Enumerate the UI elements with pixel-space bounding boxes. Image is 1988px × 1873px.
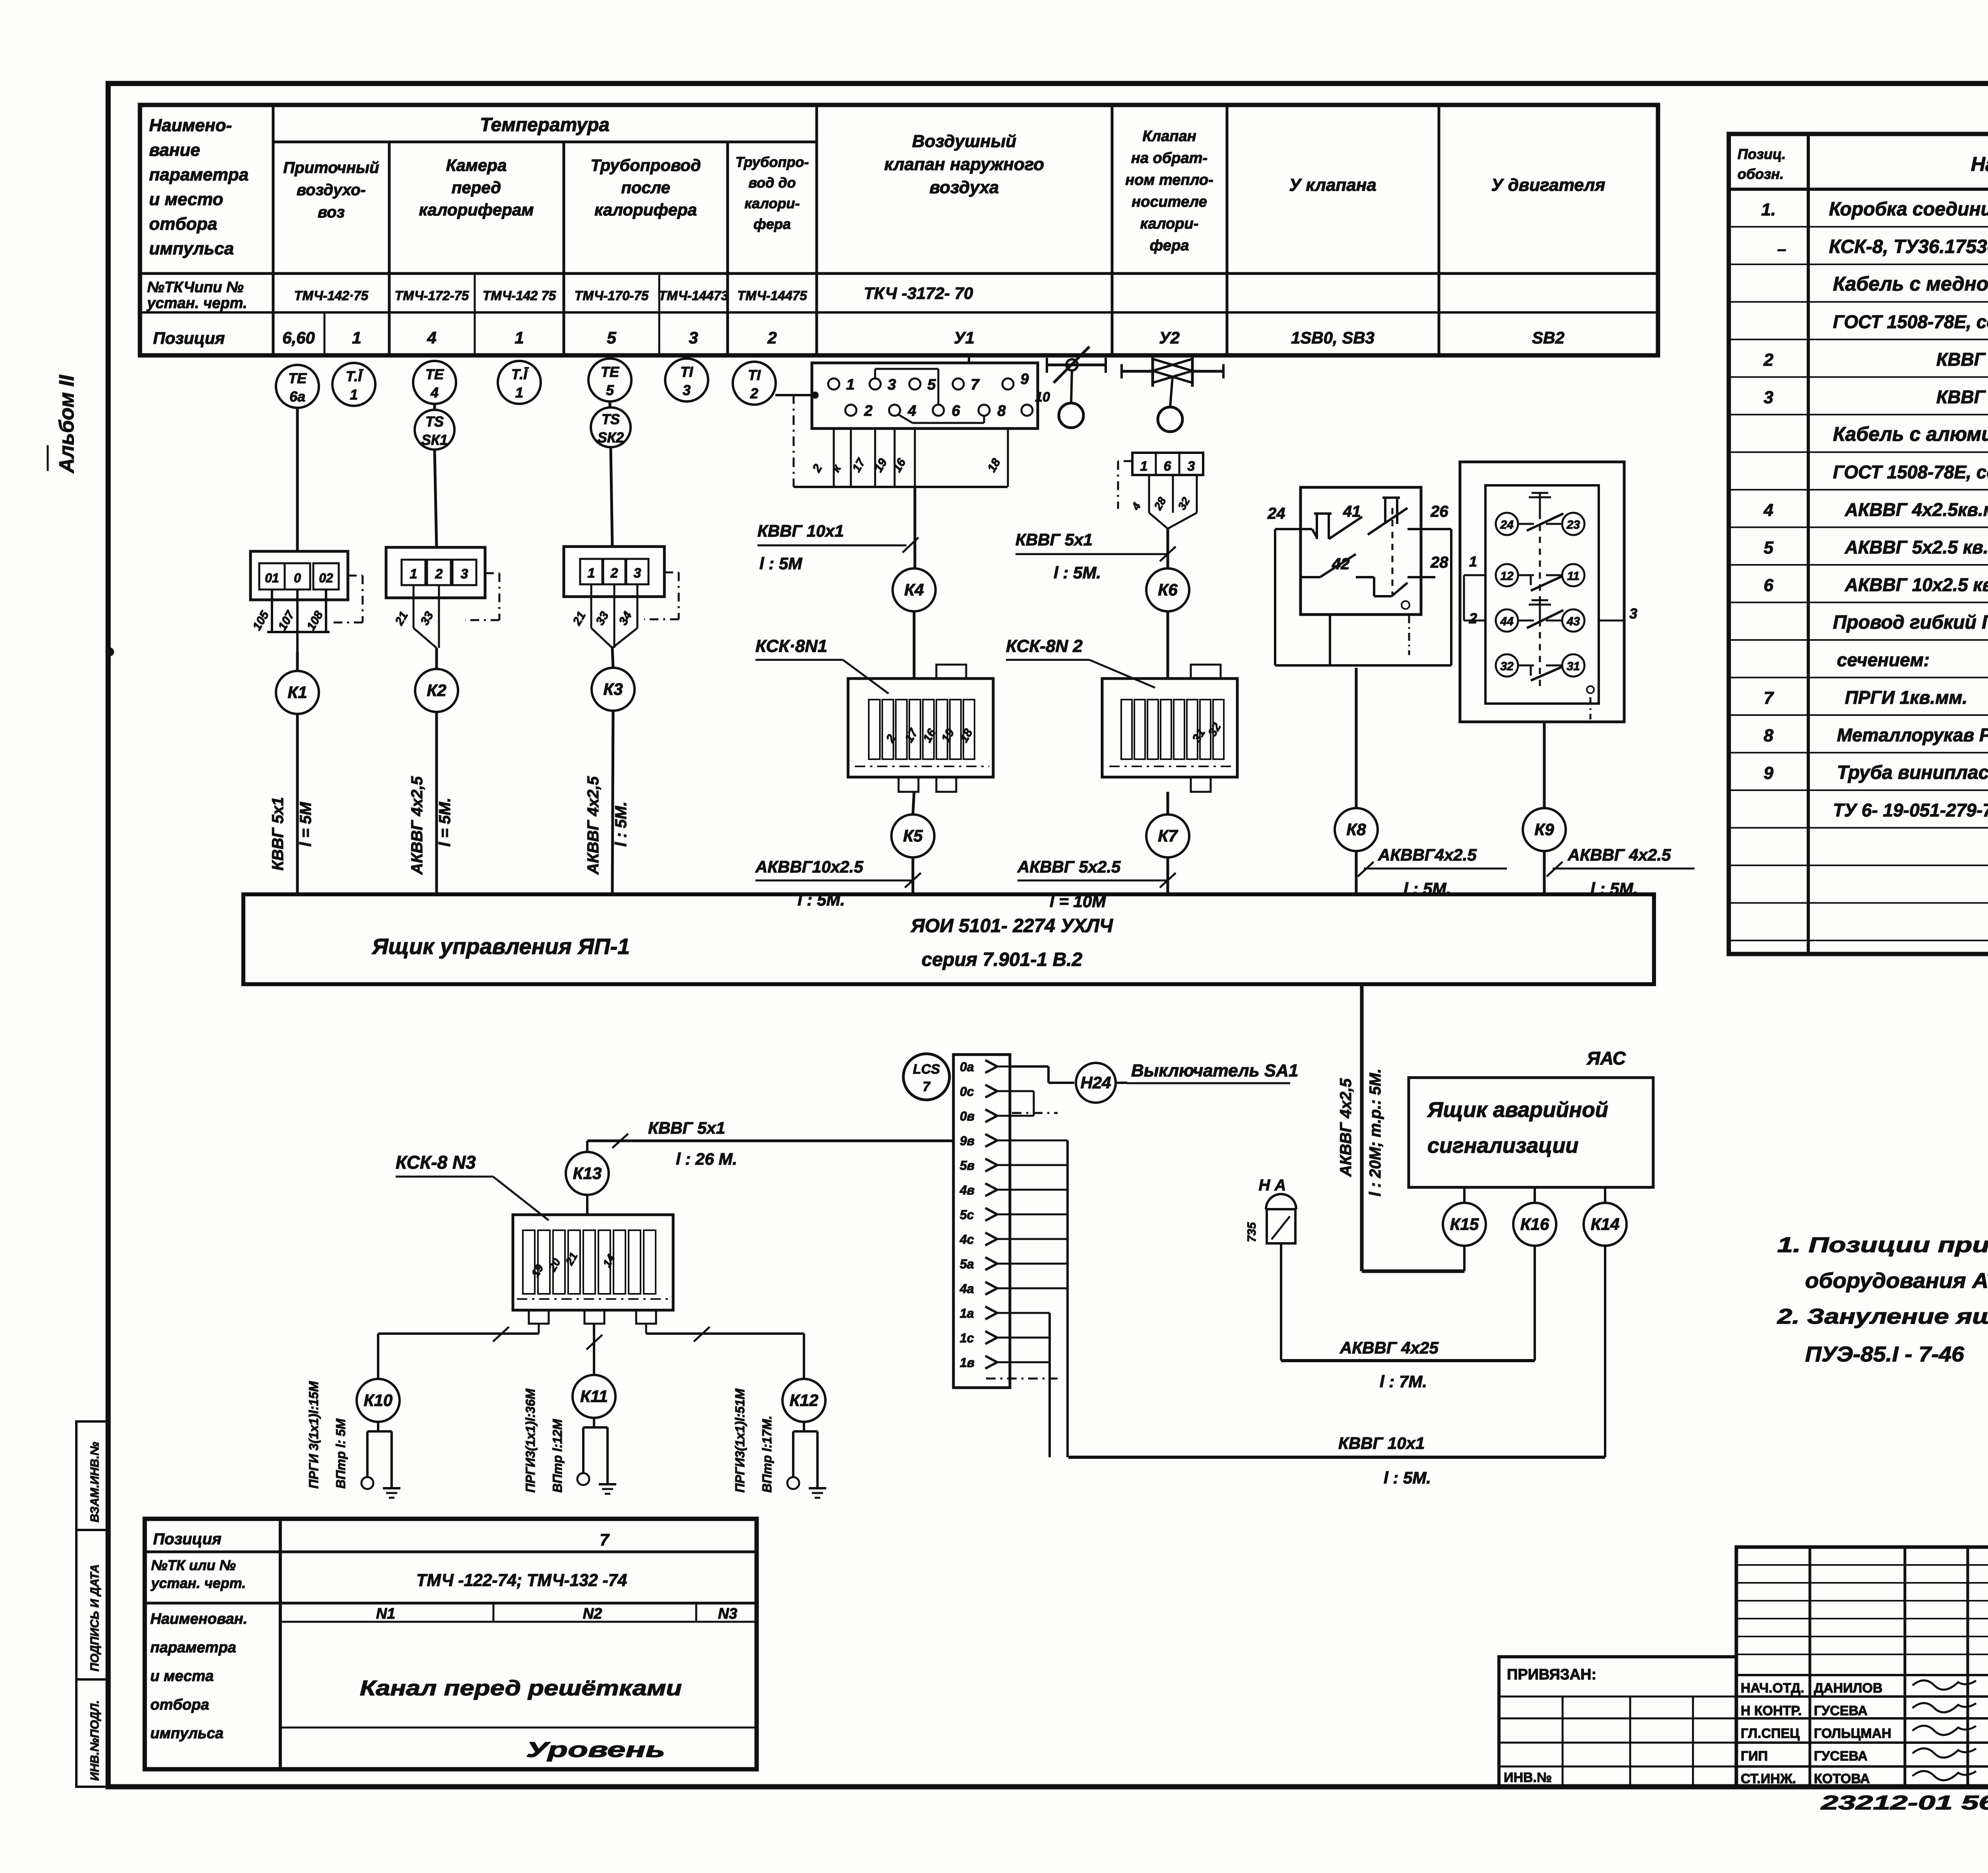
air valve connector plate: [812, 363, 1038, 429]
limit switch box outer: [1301, 487, 1421, 615]
label underline: [755, 659, 843, 661]
electrode tip circle: [787, 1477, 799, 1489]
svg-text:2: 2: [864, 403, 872, 419]
label underline: [1127, 1082, 1290, 1084]
strip stub to bus2: [1010, 1312, 1050, 1314]
svg-text:Альбом II: Альбом II: [55, 374, 78, 474]
svg-text:воздухо-: воздухо-: [297, 181, 366, 199]
strip dash-dot: [1012, 1112, 1058, 1114]
stub from table to plate: [968, 355, 970, 363]
svg-text:12: 12: [1500, 570, 1514, 583]
svg-text:К7: К7: [1158, 826, 1178, 845]
table A outer border: [140, 105, 1658, 355]
box2 stub 21: [413, 585, 415, 628]
svg-text:ТМЧ-170-75: ТМЧ-170-75: [575, 288, 649, 303]
svg-text:2: 2: [610, 566, 618, 581]
svg-text:5а: 5а: [960, 1257, 974, 1271]
title block outer: [1736, 1547, 1988, 1787]
svg-text:К3: К3: [603, 680, 623, 698]
svg-text:параметра: параметра: [150, 1639, 236, 1656]
svg-text:Кабель с медной жилой,: Кабель с медной жилой,: [1833, 273, 1988, 295]
svg-text:Провод гибкий ГОСТ 20520-80,: Провод гибкий ГОСТ 20520-80,: [1833, 612, 1988, 633]
external wire 26: [1421, 528, 1451, 530]
svg-text:11: 11: [1567, 570, 1579, 583]
stub K16: [1534, 1187, 1536, 1203]
svg-text:К16: К16: [1520, 1215, 1549, 1233]
KCK-8N1 top tab: [936, 665, 966, 679]
box3 stub 33: [613, 584, 615, 648]
external wire left down: [1274, 529, 1276, 665]
svg-text:сечением:: сечением:: [1837, 650, 1930, 670]
box bottom exit: [1329, 615, 1331, 665]
valve2 actuator circle: [1158, 407, 1182, 432]
svg-text:9: 9: [1020, 371, 1029, 388]
svg-text:l : 26 М.: l : 26 М.: [676, 1150, 737, 1168]
svg-text:отбора: отбора: [150, 1697, 209, 1713]
svg-text:43: 43: [1566, 615, 1580, 628]
table A row2 bottom line: [140, 311, 1658, 314]
stub 32: [1196, 475, 1198, 513]
wire to K1: [296, 652, 299, 672]
wire K3 to control box: [612, 710, 613, 894]
wire to K8: [1355, 668, 1358, 808]
junction box 3: [564, 547, 664, 597]
stub 4: [1148, 475, 1150, 513]
svg-text:ПОДПИСЬ И ДАТА: ПОДПИСЬ И ДАТА: [88, 1564, 101, 1671]
valve2 line left: [1122, 370, 1153, 373]
cable marker К15: [1443, 1203, 1486, 1246]
table C row2 bottom: [145, 1602, 757, 1605]
box3 cell 1: [580, 559, 602, 584]
svg-text:К10: К10: [364, 1391, 393, 1410]
wire TS SK1 down: [435, 450, 437, 547]
wire TS SK2 down: [611, 447, 612, 547]
svg-text:К9: К9: [1534, 820, 1554, 839]
svg-text:8: 8: [1764, 726, 1774, 745]
svg-text:4с: 4с: [959, 1232, 974, 1247]
svg-text:Ящик аварийной: Ящик аварийной: [1427, 1098, 1608, 1122]
svg-text:l = 5М.: l = 5М.: [436, 798, 454, 847]
svg-text:Уровень: Уровень: [526, 1738, 665, 1762]
level electrode with ground K11: [593, 1418, 595, 1427]
svg-text:воздуха: воздуха: [930, 178, 999, 197]
svg-text:ЯАС: ЯАС: [1586, 1048, 1626, 1068]
ground bar2: [386, 1492, 397, 1494]
svg-text:У2: У2: [1159, 328, 1180, 347]
bus2 down: [1048, 1313, 1051, 1457]
svg-text:1: 1: [514, 328, 524, 347]
svg-text:Позиция: Позиция: [153, 329, 225, 347]
svg-text:l : 20М; т.р.: 5М.: l : 20М; т.р.: 5М.: [1367, 1068, 1384, 1196]
svg-text:К4: К4: [904, 580, 924, 599]
contact blade 41b: [1368, 508, 1408, 535]
plate wire down: [914, 429, 916, 487]
pin circle: [1402, 601, 1409, 609]
cable marker К12: [782, 1379, 825, 1422]
contact blade 42: [1320, 554, 1356, 577]
svg-text:ТЕ: ТЕ: [425, 366, 444, 382]
svg-text:ПРИВЯЗАН:: ПРИВЯЗАН:: [1507, 1666, 1596, 1683]
box1 stub 105: [271, 589, 273, 632]
sensor TE 6a: [276, 365, 319, 408]
wire to K2: [435, 648, 438, 670]
pin circle 12: [1496, 564, 1518, 586]
svg-text:Наименован.: Наименован.: [150, 1611, 247, 1627]
svg-text:ГОСТ 1508-78Е, сечением:: ГОСТ 1508-78Е, сечением:: [1833, 312, 1988, 332]
svg-text:3: 3: [887, 376, 896, 393]
box2 screen dash-dot: [485, 572, 499, 574]
wire to K6: [1167, 529, 1169, 568]
contact row 41: [1301, 528, 1312, 530]
strip stub to bus1: [1010, 1287, 1068, 1289]
strip stub to bus1: [1010, 1140, 1068, 1142]
svg-text:Н А: Н А: [1259, 1177, 1286, 1194]
svg-text:4: 4: [430, 384, 439, 401]
pin circle 11: [1562, 564, 1584, 586]
wire K9 to control box: [1543, 851, 1546, 894]
pin circle 24: [1496, 513, 1518, 535]
svg-text:0: 0: [294, 571, 301, 585]
control box ЯП-1 outer: [243, 894, 1654, 984]
svg-text:1. Позиции приборов соответств: 1. Позиции приборов соответствуют специф…: [1777, 1233, 1988, 1257]
svg-text:Приточный: Приточный: [283, 159, 379, 176]
ground bar1: [809, 1487, 826, 1489]
svg-text:К15: К15: [1450, 1215, 1479, 1233]
mech link dashed: [1539, 501, 1541, 692]
box1 stub 107: [296, 589, 299, 652]
box2 cell 1: [402, 560, 425, 585]
svg-text:l : 5М.: l : 5М.: [1054, 563, 1101, 582]
svg-text:Т.Ī: Т.Ī: [346, 368, 364, 384]
svg-text:Наимено-: Наимено-: [149, 116, 232, 135]
cable КВВГ5х1 l26 run: [587, 1140, 953, 1142]
cable marker К9: [1523, 808, 1566, 851]
level electrode with ground K12: [803, 1422, 805, 1431]
table C sub row line: [280, 1621, 757, 1623]
svg-text:1: 1: [588, 566, 595, 581]
svg-text:Т.Ī: Т.Ī: [511, 366, 529, 382]
indicator TI 1b: [498, 361, 541, 404]
electrode tip circle: [577, 1473, 589, 1485]
table A column line x=2054: [815, 105, 818, 355]
indicator TI 2: [733, 362, 776, 405]
svg-text:ГЛ.СПЕЦ: ГЛ.СПЕЦ: [1741, 1726, 1800, 1741]
cable marker К2: [415, 669, 458, 712]
svg-text:1с: 1с: [960, 1331, 974, 1345]
svg-text:Н24: Н24: [1080, 1073, 1111, 1092]
table B col Позиц right: [1807, 134, 1810, 954]
svg-text:ГОЛЬЦМАН: ГОЛЬЦМАН: [1814, 1726, 1891, 1741]
wire to K7: [1167, 792, 1169, 814]
svg-text:26: 26: [1430, 503, 1448, 520]
svg-text:Позиция: Позиция: [153, 1530, 221, 1548]
cable marker Н24: [1076, 1063, 1116, 1103]
svg-text:2: 2: [435, 566, 443, 582]
svg-text:5: 5: [606, 382, 614, 398]
svg-text:К14: К14: [1591, 1215, 1620, 1233]
title block vline 4949: [1967, 1547, 1969, 1787]
svg-text:31: 31: [1567, 660, 1580, 673]
screen dash-dot: [1118, 460, 1132, 462]
svg-text:носителе: носителе: [1132, 194, 1207, 210]
svg-text:Трубопровод: Трубопровод: [590, 156, 701, 175]
svg-text:l : 5М.: l : 5М.: [1384, 1468, 1431, 1487]
svg-text:НАЧ.ОТД.: НАЧ.ОТД.: [1741, 1681, 1804, 1696]
screen dash-dot: [1590, 697, 1592, 719]
ground bar2: [602, 1488, 613, 1490]
table C outer border: [145, 1519, 757, 1769]
svg-text:КВВГ 5х1: КВВГ 5х1: [648, 1119, 725, 1137]
run to K12: [646, 1332, 804, 1335]
valve terminal row: [1132, 453, 1203, 475]
svg-text:У двигателя: У двигателя: [1491, 175, 1606, 195]
svg-text:АКВВГ 4х2.5: АКВВГ 4х2.5: [1567, 845, 1671, 864]
svg-text:и место: и место: [149, 190, 223, 209]
plate wire down: [894, 429, 896, 487]
svg-text:калорифера: калорифера: [594, 200, 697, 219]
svg-text:Кабель с алюминиевой жилой,: Кабель с алюминиевой жилой,: [1833, 423, 1988, 445]
table A Температура underline: [273, 141, 817, 143]
svg-text:ГИП: ГИП: [1741, 1749, 1768, 1764]
svg-text:3: 3: [461, 566, 468, 582]
svg-text:ВПтр l:17М.: ВПтр l:17М.: [760, 1415, 774, 1493]
svg-text:вод до: вод до: [748, 175, 796, 191]
label leader: [843, 660, 889, 694]
svg-text:N2: N2: [583, 1605, 602, 1622]
svg-text:1: 1: [410, 566, 417, 582]
wire to K9: [1543, 722, 1546, 808]
svg-text:ТI: ТI: [748, 367, 761, 383]
terminal strip outer: [953, 1055, 1010, 1388]
svg-text:СТ.ИНЖ.: СТ.ИНЖ.: [1741, 1771, 1796, 1786]
KCK-8N2 bottom tab: [1191, 777, 1211, 792]
box3 stub 34: [637, 584, 639, 628]
stub K15: [1463, 1187, 1466, 1203]
svg-text:23212-01 56: 23212-01 56: [1820, 1792, 1988, 1814]
plate pin 9: [1002, 378, 1013, 390]
left stamp strip: [76, 1421, 108, 1787]
svg-text:и места: и места: [150, 1668, 214, 1685]
svg-text:SК2: SК2: [598, 429, 624, 446]
plate pin bottom row: [1021, 405, 1033, 416]
svg-text:2. Зануление ящиков, аппарато: 2. Зануление ящиков, аппаратов выполнить…: [1777, 1305, 1988, 1328]
slash: [586, 1335, 602, 1349]
attach box outer: [1499, 1657, 1736, 1787]
run to K15: [1362, 1270, 1464, 1273]
svg-text:4в: 4в: [959, 1183, 975, 1197]
KCK-8N2 outer: [1102, 679, 1237, 777]
KCK-8N3 dash-dot: [517, 1298, 670, 1300]
svg-text:0с: 0с: [960, 1084, 974, 1099]
valve1 stem circle: [1066, 359, 1077, 370]
sensor TE 4: [413, 361, 456, 404]
box3 cell 3: [626, 559, 648, 584]
svg-text:ном тепло-: ном тепло-: [1125, 172, 1213, 188]
strip stub to bus1: [1010, 1164, 1068, 1166]
svg-text:КВВГ 5х1: КВВГ 5х1: [269, 797, 287, 871]
plate wire down right: [1007, 429, 1009, 487]
svg-text:1: 1: [515, 384, 523, 401]
table A column line x=3619: [1438, 105, 1441, 355]
signature squiggles: [1912, 1681, 1976, 1690]
svg-text:4: 4: [1763, 500, 1773, 520]
svg-text:3: 3: [1629, 605, 1637, 622]
svg-text:ТМЧ-14475: ТМЧ-14475: [737, 288, 807, 303]
box1 stub bus: [267, 631, 330, 633]
svg-text:4а: 4а: [959, 1282, 974, 1296]
svg-text:сигнализации: сигнализации: [1427, 1134, 1578, 1158]
svg-text:0а: 0а: [960, 1060, 974, 1074]
title block vline 4552: [1809, 1547, 1811, 1787]
svg-text:ТМЧ-142 75: ТМЧ-142 75: [483, 288, 556, 303]
table A header bottom line: [140, 272, 1658, 275]
KCK-8N1 dash-dot: [855, 766, 989, 767]
ground bar3: [815, 1497, 820, 1499]
wire K4 to KCK-8N1: [913, 611, 916, 679]
KCK-8N1 outer: [848, 679, 993, 777]
svg-text:Воздушный: Воздушный: [912, 132, 1016, 151]
svg-text:на обрат-: на обрат-: [1131, 150, 1208, 167]
svg-text:КСК-8 N3: КСК-8 N3: [396, 1152, 476, 1173]
KCK-8N3 bottom tab2: [584, 1310, 604, 1324]
svg-text:735: 735: [1245, 1222, 1258, 1242]
cable АКВВГ4х25 run: [1281, 1359, 1535, 1362]
run to K10: [378, 1332, 539, 1335]
KCK-8N1 bottom tab2: [936, 777, 956, 792]
svg-text:ПУЭ-85.I - 7-46: ПУЭ-85.I - 7-46: [1805, 1342, 1965, 1366]
svg-text:4: 4: [907, 403, 916, 419]
stub 28: [1172, 475, 1174, 513]
cable marker К8: [1335, 808, 1378, 851]
svg-text:N1: N1: [376, 1605, 396, 1622]
svg-text:1SВ0, SВ3: 1SВ0, SВ3: [1291, 328, 1375, 347]
wire row 0a: [1010, 1065, 1048, 1068]
valve1 down wire: [1071, 370, 1072, 403]
plate wire down: [874, 429, 876, 487]
svg-text:серия 7.901-1 В.2: серия 7.901-1 В.2: [922, 949, 1083, 970]
svg-text:6,60: 6,60: [282, 328, 315, 347]
screen dash-dot: [1408, 615, 1410, 655]
junction box 2: [386, 547, 485, 598]
box2 stub 33: [438, 585, 440, 648]
valve2 line right: [1192, 370, 1223, 373]
lamp filament mark: [1272, 1216, 1290, 1239]
ground bar3: [389, 1497, 394, 1499]
cable КВВГ10х1 run: [1068, 1456, 1605, 1459]
KCK-8N1 bottom tab1: [899, 777, 918, 792]
svg-text:Ящик управления ЯП-1: Ящик управления ЯП-1: [371, 934, 630, 959]
svg-text:Трубопро-: Трубопро-: [736, 154, 809, 170]
cable marker К14: [1584, 1203, 1627, 1246]
svg-text:клапан наружного: клапан наружного: [884, 155, 1044, 174]
contact row 42: [1301, 576, 1320, 578]
indicator TI 1: [332, 363, 375, 406]
svg-text:К11: К11: [580, 1387, 608, 1406]
slash: [493, 1327, 509, 1342]
table C канал row bottom: [280, 1727, 757, 1729]
svg-text:параметра: параметра: [149, 165, 248, 184]
svg-text:7: 7: [600, 1530, 610, 1549]
svg-text:2: 2: [767, 328, 777, 347]
svg-text:отбора: отбора: [149, 214, 217, 234]
svg-text:ИНВ.№: ИНВ.№: [1504, 1770, 1552, 1785]
svg-text:N3: N3: [718, 1605, 738, 1622]
contact blade row 32-31: [1530, 665, 1532, 676]
label leader: [1089, 660, 1155, 688]
exit right: [645, 1324, 647, 1334]
svg-text:К2: К2: [427, 681, 446, 700]
wire bus to K4: [914, 487, 916, 568]
label underline: [757, 545, 907, 547]
instrument LCS 7: [903, 1054, 949, 1100]
svg-text:К8: К8: [1346, 820, 1366, 839]
svg-text:7: 7: [1764, 688, 1774, 708]
slash: [694, 1327, 710, 1342]
svg-text:КСК-8N 2: КСК-8N 2: [1006, 636, 1083, 656]
svg-text:–: –: [1777, 240, 1786, 258]
box1 cell 0: [285, 563, 310, 589]
KCK-8N3 bottom tab3: [636, 1310, 656, 1324]
wire to H24: [1048, 1082, 1074, 1084]
svg-text:ТМЧ -122-74; ТМЧ-132 -74: ТМЧ -122-74; ТМЧ-132 -74: [416, 1571, 627, 1590]
svg-text:1: 1: [1140, 459, 1148, 474]
KCK-8N3 outer: [513, 1215, 673, 1310]
box3 cell 2: [603, 559, 625, 584]
pin circle bottom: [1587, 686, 1594, 693]
svg-text:LСS: LСS: [913, 1062, 940, 1077]
cable marker К16: [1513, 1203, 1556, 1246]
bottom bus: [1275, 664, 1451, 667]
box3 stub 21: [590, 584, 592, 628]
table B outer border: [1729, 134, 1988, 954]
svg-text:24: 24: [1500, 518, 1514, 531]
svg-text:6: 6: [951, 403, 960, 419]
pin circle 31: [1562, 654, 1584, 677]
svg-text:Клапан: Клапан: [1142, 128, 1196, 145]
label slash: [903, 537, 918, 553]
ground bar1: [383, 1487, 400, 1489]
svg-text:фера: фера: [753, 216, 791, 232]
stub K14: [1604, 1187, 1606, 1203]
svg-text:импульса: импульса: [149, 239, 234, 258]
plate pin bottom row: [933, 405, 944, 416]
cable marker К3: [592, 668, 635, 711]
svg-text:5с: 5с: [960, 1208, 974, 1222]
svg-text:ВПтр l:12М: ВПтр l:12М: [550, 1419, 565, 1493]
svg-text:АКВВГ 10х2.5 кв.мм.: АКВВГ 10х2.5 кв.мм.: [1844, 574, 1988, 595]
lamp body: [1267, 1209, 1295, 1243]
wire row 0c: [1010, 1090, 1034, 1092]
plate pin bottom row: [978, 405, 990, 416]
table A column line x=687: [272, 105, 275, 355]
box1 cell 01: [259, 563, 285, 589]
svg-text:Температура: Температура: [480, 114, 610, 136]
svg-text:7: 7: [971, 376, 980, 393]
svg-text:02: 02: [319, 571, 333, 585]
svg-text:ИНВ.№ПОДЛ.: ИНВ.№ПОДЛ.: [88, 1700, 101, 1781]
svg-text:АКВВГ 5х2.5: АКВВГ 5х2.5: [1017, 857, 1121, 876]
svg-text:ПРГИ3(1х1)l:51М: ПРГИ3(1х1)l:51М: [733, 1388, 747, 1493]
svg-text:К6: К6: [1158, 580, 1178, 599]
svg-text:ТКЧ -3172- 70: ТКЧ -3172- 70: [864, 284, 973, 302]
svg-text:l : 7М.: l : 7М.: [1380, 1372, 1427, 1391]
svg-text:9в: 9в: [960, 1134, 975, 1148]
pin circle 43: [1562, 609, 1584, 632]
svg-text:32: 32: [1500, 660, 1514, 673]
svg-text:2: 2: [750, 385, 758, 401]
svg-text:К1: К1: [287, 683, 307, 702]
svg-text:после: после: [621, 178, 670, 197]
